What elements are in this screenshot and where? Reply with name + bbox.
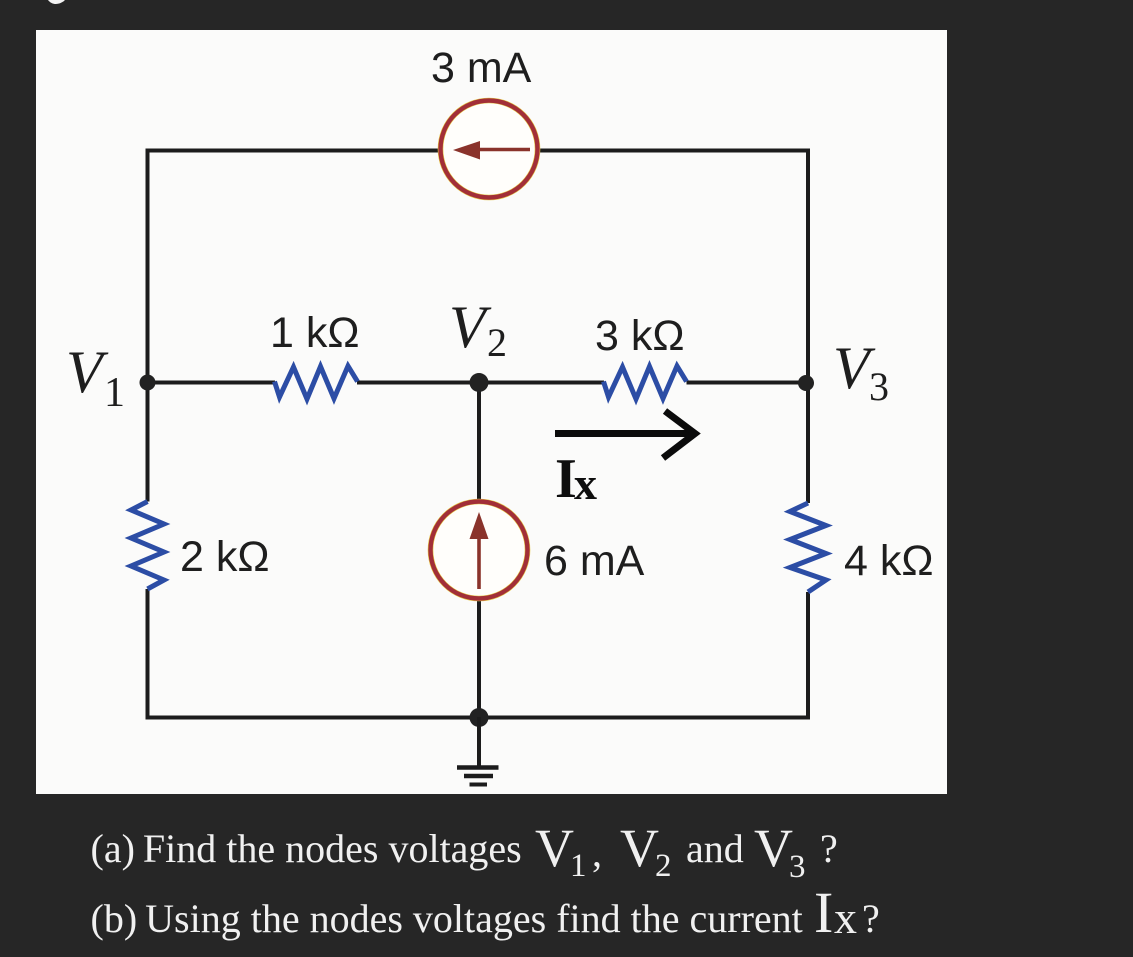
wire: right vertical lower bbox=[806, 592, 810, 718]
svg-text:(a) Find the nodes voltages: (a) Find the nodes voltages bbox=[91, 826, 522, 871]
svg-text:V: V bbox=[620, 818, 659, 878]
svg-text:3: 3 bbox=[789, 849, 806, 885]
svg-text:4 kΩ: 4 kΩ bbox=[844, 537, 934, 585]
current source I2 6 mA bbox=[431, 502, 528, 599]
svg-text:V: V bbox=[66, 339, 109, 405]
svg-text:I: I bbox=[814, 880, 833, 945]
resistor R1 1 kOhm bbox=[275, 366, 358, 399]
svg-text:2: 2 bbox=[655, 848, 672, 884]
current source I1 3 mA bbox=[441, 101, 538, 198]
svg-text:3 mA: 3 mA bbox=[431, 44, 532, 92]
wire: top horizontal bbox=[148, 149, 809, 153]
question text line (b) bbox=[91, 880, 880, 945]
svg-text:?: ? bbox=[820, 826, 838, 871]
wire: middle vertical V2 to bottom node bbox=[477, 383, 481, 718]
wire: left vertical lower bbox=[146, 589, 150, 718]
resistor R3 2 kOhm bbox=[131, 502, 164, 590]
wire: right vertical upper bbox=[806, 149, 810, 504]
wire: middle horizontal R2 to V3 bbox=[687, 381, 809, 385]
node V2 junction dot bbox=[470, 373, 489, 392]
resistor R4 4 kOhm bbox=[790, 503, 826, 592]
svg-text:1 kΩ: 1 kΩ bbox=[270, 309, 360, 357]
question text line (a) bbox=[91, 818, 838, 885]
svg-text:1: 1 bbox=[104, 370, 125, 416]
partial letter Q fragment top-left bbox=[48, 0, 65, 4]
svg-text:V: V bbox=[535, 818, 574, 878]
node ground junction dot bbox=[470, 708, 489, 727]
svg-text:2: 2 bbox=[487, 320, 507, 365]
svg-text:2 kΩ: 2 kΩ bbox=[180, 533, 270, 581]
svg-text:1: 1 bbox=[570, 848, 587, 884]
svg-text:(b) Using the nodes voltages f: (b) Using the nodes voltages find the cu… bbox=[91, 896, 803, 941]
svg-text:and: and bbox=[686, 826, 744, 871]
svg-text:V: V bbox=[449, 294, 492, 360]
wire: bottom horizontal bbox=[146, 716, 811, 720]
wire: middle horizontal V1 to R1 bbox=[148, 381, 276, 385]
svg-text:x: x bbox=[834, 892, 857, 943]
svg-text:V: V bbox=[754, 818, 793, 878]
svg-text:x: x bbox=[574, 458, 597, 509]
ground symbol bbox=[457, 717, 499, 785]
white schematic panel bbox=[36, 30, 947, 794]
wire: left vertical upper bbox=[146, 149, 150, 502]
resistor R2 3 kOhm bbox=[604, 366, 687, 399]
node V1 junction dot bbox=[140, 375, 156, 391]
svg-text:6 mA: 6 mA bbox=[544, 537, 645, 585]
svg-text:3: 3 bbox=[869, 364, 889, 409]
node V3 junction dot bbox=[798, 375, 814, 391]
wire: middle horizontal R1 to R2 through V2 bbox=[357, 381, 604, 385]
arrow Ix current direction bbox=[555, 411, 695, 458]
svg-text:?: ? bbox=[862, 896, 880, 941]
svg-text:3 kΩ: 3 kΩ bbox=[595, 312, 685, 360]
svg-text:,: , bbox=[592, 830, 602, 875]
